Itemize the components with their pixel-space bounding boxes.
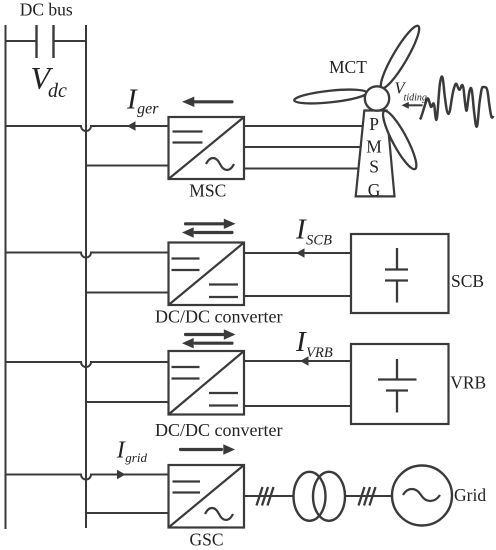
three-phase slashes 2 bbox=[359, 487, 376, 506]
DC/DC 1 output-side lines bbox=[209, 285, 238, 298]
wire row1 top (left rail to MSC, hop over right rail) bbox=[6, 126, 169, 131]
bold bidirectional arrows above DC/DC 2 bbox=[182, 329, 236, 348]
svg-text:DC/DC converter: DC/DC converter bbox=[155, 307, 282, 327]
bold bidirectional arrows above DC/DC 1 bbox=[182, 219, 236, 238]
svg-text:VRB: VRB bbox=[450, 373, 486, 393]
VRB battery symbol bbox=[378, 359, 417, 413]
wire row1 bottom (right rail to MSC) bbox=[86, 165, 169, 167]
wire DC/DC 1 to SCB bottom bbox=[244, 295, 351, 297]
wire row2 top (left rail to DC/DC 1, hop over right rail) bbox=[6, 253, 169, 258]
VRB box bbox=[351, 344, 449, 424]
DC bus left rail bbox=[5, 25, 7, 529]
three-phase slashes 1 bbox=[257, 487, 274, 506]
svg-text:SCB: SCB bbox=[451, 271, 484, 291]
svg-text:MCT: MCT bbox=[329, 57, 367, 77]
SCB box bbox=[351, 234, 449, 313]
converter DC/DC 1 box bbox=[169, 243, 245, 306]
wire row4 top (left rail to GSC, hop over right rail) bbox=[6, 475, 169, 480]
wire row4 bottom (right rail to GSC) bbox=[86, 512, 169, 514]
grid AC source circle bbox=[392, 466, 452, 526]
turbine tower PMSG bbox=[356, 111, 395, 197]
wire row3 bottom (right rail to DC/DC 2) bbox=[86, 401, 169, 403]
wire DC/DC 2 to VRB bottom bbox=[244, 405, 351, 407]
DC bus right rail bbox=[85, 25, 87, 528]
wire row3 top (left rail to DC/DC 2, hop over right rail) bbox=[6, 362, 169, 367]
arrowhead I_SCB (left) bbox=[296, 248, 305, 258]
svg-text:GSC: GSC bbox=[190, 529, 224, 549]
wire DC/DC 2 to VRB top bbox=[244, 360, 351, 362]
tidal speed squiggle bbox=[420, 76, 493, 126]
svg-text:M: M bbox=[366, 137, 382, 157]
three-phase wires MSC to PMSG bbox=[244, 125, 364, 127]
svg-text:DC/DC converter: DC/DC converter bbox=[155, 420, 282, 440]
MSC DC-side lines bbox=[173, 132, 203, 143]
arrowhead I_ger (left) bbox=[127, 121, 136, 131]
capacitor C_dc leads bbox=[6, 40, 36, 42]
svg-text:Grid: Grid bbox=[454, 485, 486, 505]
bold arrow above MSC (left) bbox=[182, 97, 234, 107]
wire GSC to transformer bbox=[244, 495, 294, 497]
arrowhead I_VRB (left) bbox=[300, 356, 309, 366]
SCB capacitor symbol bbox=[385, 248, 408, 303]
converter DC/DC 2 box bbox=[169, 351, 245, 415]
V_tiding arrow shaft bbox=[408, 104, 423, 106]
turbine hub bbox=[365, 86, 389, 110]
transformer T1 bbox=[294, 472, 346, 521]
converter MSC box bbox=[169, 117, 245, 179]
DC/DC 2 input-side lines bbox=[172, 367, 200, 379]
svg-text:G: G bbox=[368, 180, 381, 200]
turbine blade lower-right bbox=[378, 108, 422, 173]
arrowhead I_grid (right) bbox=[117, 470, 126, 480]
svg-text:S: S bbox=[369, 157, 379, 177]
svg-text:P: P bbox=[369, 114, 379, 134]
svg-text:DC bus: DC bus bbox=[20, 0, 73, 20]
MSC AC-side sine bbox=[206, 158, 234, 170]
grid sine bbox=[403, 489, 440, 501]
converter GSC box bbox=[169, 465, 245, 528]
wire DC/DC 1 to SCB top bbox=[244, 252, 351, 254]
arrowhead V_tiding (left) bbox=[402, 102, 409, 109]
wire row2 bottom (right rail to DC/DC 1) bbox=[86, 292, 169, 294]
GSC DC-side lines bbox=[173, 482, 201, 493]
wire transformer to grid bbox=[345, 495, 392, 497]
GSC AC-side sine bbox=[205, 508, 233, 520]
capacitor C_dc plates bbox=[37, 25, 54, 58]
turbine blade left bbox=[294, 87, 368, 106]
bold arrow above GSC (right) bbox=[179, 444, 235, 454]
DC/DC 2 output-side lines bbox=[209, 393, 238, 406]
turbine blade top bbox=[376, 22, 425, 91]
DC/DC 1 input-side lines bbox=[172, 259, 200, 271]
svg-text:MSC: MSC bbox=[189, 181, 226, 201]
